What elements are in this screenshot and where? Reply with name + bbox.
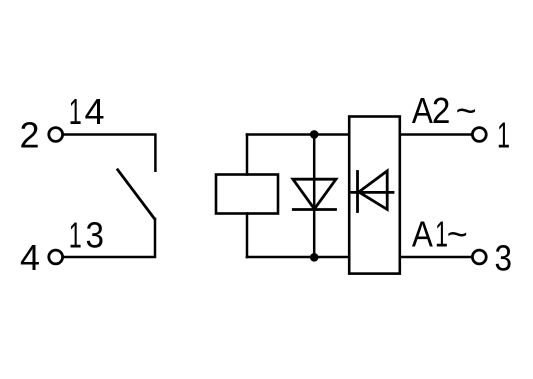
svg-text:~: ~ <box>447 214 468 255</box>
svg-text:1: 1 <box>69 91 82 132</box>
svg-text:1: 1 <box>497 115 510 156</box>
junction dot top <box>310 130 319 139</box>
svg-text:2: 2 <box>432 90 451 131</box>
contact blade (NO switch) <box>118 170 155 219</box>
svg-text:4: 4 <box>20 237 40 278</box>
svg-text:~: ~ <box>456 90 477 131</box>
freewheel diode V1 <box>293 179 336 209</box>
diode branch wire <box>313 135 316 258</box>
label 13 <box>69 215 104 256</box>
label A2~ <box>412 90 477 131</box>
junction dot bottom <box>310 253 319 262</box>
relay coil K1 <box>216 175 278 214</box>
top rail wire <box>247 133 349 136</box>
wire rectifier to terminal 1 <box>400 133 472 136</box>
bottom rail wire <box>247 256 349 259</box>
svg-text:1: 1 <box>69 215 82 256</box>
terminal 2 circle <box>49 128 63 142</box>
label A1~ <box>412 214 468 255</box>
svg-text:A: A <box>412 90 433 131</box>
svg-text:3: 3 <box>86 215 105 256</box>
terminal 4 circle <box>49 250 63 264</box>
svg-text:3: 3 <box>495 238 513 279</box>
wire contact to terminal4 <box>63 219 155 257</box>
svg-text:4: 4 <box>85 91 105 132</box>
coil branch wire bottom <box>246 214 249 258</box>
svg-text:2: 2 <box>19 115 39 156</box>
coil branch wire top <box>246 135 249 175</box>
label 14 <box>69 91 105 132</box>
rectifier diode symbol <box>352 171 393 212</box>
terminal 1 circle <box>472 128 486 142</box>
svg-text:A: A <box>412 214 433 255</box>
wire terminal2 to contact <box>63 135 155 171</box>
rectifier box <box>349 117 400 274</box>
terminal 3 circle <box>472 250 486 264</box>
wire rectifier to terminal 3 <box>400 256 472 259</box>
